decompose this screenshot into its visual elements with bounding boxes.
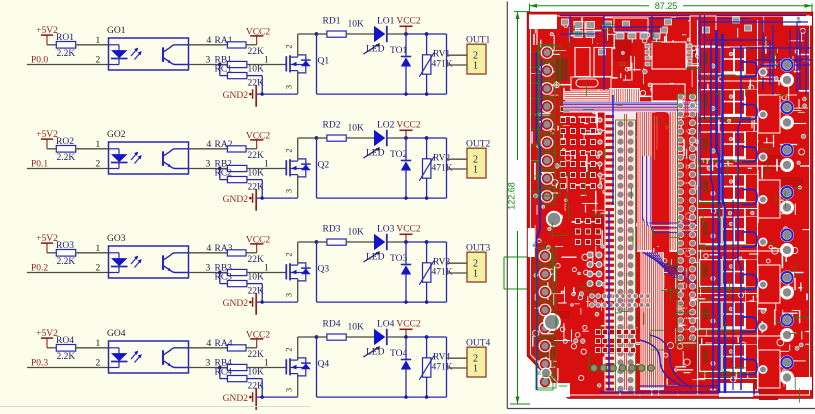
PCB board outline [528, 13, 813, 399]
svg-text:1: 1 [96, 140, 101, 150]
node drain (channel 2) [315, 136, 319, 140]
wire LO4 to VCC2 node [387, 336, 406, 338]
dimension 87.25 (top) [530, 1, 813, 13]
PCB bottom pad rows [590, 294, 655, 372]
PCB blue traces [537, 15, 813, 393]
wire opto pin 4 to RA2 [189, 140, 228, 150]
PCB top-left component blocks [555, 16, 716, 101]
wire P0.2 to opto pin 2 [27, 263, 109, 273]
wire RA3 to VCC2 [246, 252, 257, 254]
PCB driver clusters (right-centre) [699, 47, 758, 374]
svg-text:10K: 10K [348, 124, 365, 134]
svg-text:3: 3 [284, 293, 294, 297]
node RV4 bottom [425, 395, 428, 398]
svg-text:GO1: GO1 [107, 26, 126, 36]
wire drain to RD3 [317, 241, 327, 243]
svg-text:VCC2: VCC2 [396, 17, 421, 27]
node RV2 bottom [425, 196, 428, 199]
svg-text:LO2: LO2 [377, 121, 395, 131]
wire RC1 down to GND2 rail [247, 76, 262, 95]
wire branch down to RC3 [220, 273, 228, 284]
connector OUT2 [466, 140, 491, 179]
wire +5V2 to RO4 [47, 347, 56, 349]
PCB top edge traces [560, 16, 806, 19]
wire RC2 down to GND2 rail [247, 180, 262, 199]
svg-text:RV4: RV4 [433, 353, 450, 363]
svg-text:LO4: LO4 [377, 320, 395, 330]
resistor RD4 10K [323, 320, 365, 341]
LED LO4 [364, 320, 395, 358]
wire P0.3 to opto pin 2 [27, 358, 109, 368]
node VCC2 (channel 1) [404, 32, 408, 36]
TVS diode TO2 [390, 138, 411, 198]
power VCC2 (channel 2 right) [396, 121, 421, 139]
wire Q3 drain riser [298, 242, 317, 265]
node drain (channel 4) [315, 335, 319, 339]
node GND junction (channel 1) [261, 92, 264, 95]
optocoupler GO3 [107, 234, 189, 278]
PCB blue MCU fan-out traces [642, 252, 696, 283]
node GND junction (channel 4) [261, 395, 264, 398]
wire RB4 to gate of Q4 [247, 358, 286, 368]
wire Q2 drain riser [298, 138, 317, 161]
ground GND2 (channel 3) [223, 293, 263, 315]
svg-text:2: 2 [96, 358, 101, 368]
wire Q1 drain riser [298, 34, 317, 57]
resistor RB4 10K [215, 358, 265, 377]
PCB header silkscreen boxes [616, 94, 699, 392]
wire drain to RD4 [317, 336, 327, 338]
node gate-branch (channel 2) [218, 167, 221, 170]
ground GND2 (channel 1) [223, 85, 263, 107]
wire RB2 to gate of Q2 [247, 159, 286, 169]
wire RO3 to opto pin 1 [76, 244, 109, 254]
power VCC2 (channel 4 right) [396, 320, 421, 338]
PCB lower-left resistor-array grid [575, 218, 610, 244]
wire drain to output rail [316, 34, 318, 94]
svg-text:1: 1 [96, 36, 101, 46]
svg-text:TO3: TO3 [390, 254, 407, 264]
PCB left mid pad cluster [587, 252, 602, 287]
wire drain to output rail [316, 138, 318, 198]
svg-text:22K: 22K [248, 47, 265, 57]
wire opto pin 3 to RB3 [189, 263, 228, 273]
resistor RO1 2.2K [56, 33, 76, 59]
wire RO4 to opto pin 1 [76, 339, 109, 349]
wire RA4 to VCC2 [246, 347, 257, 349]
wire output bottom rail (channel 1) [317, 93, 447, 95]
PCB horizontal trace band [563, 102, 716, 113]
svg-text:TO2: TO2 [390, 150, 407, 160]
PCB image left border [506, 2, 508, 409]
dimension bracket (left small) [504, 257, 527, 289]
power +5V2 (channel 1) [36, 26, 58, 45]
PCB mounting holes [541, 211, 563, 379]
svg-text:4: 4 [207, 36, 212, 46]
LED LO3 [364, 225, 395, 263]
svg-text:4: 4 [207, 244, 212, 254]
svg-text:LO3: LO3 [377, 225, 395, 235]
svg-text:1: 1 [473, 165, 478, 176]
PCB via dots [532, 16, 806, 387]
wire P0.1 to opto pin 2 [27, 159, 109, 169]
svg-text:LO1: LO1 [377, 17, 395, 27]
wire RD2 to LED LO2 [346, 137, 374, 139]
PCB pink trace bundles [565, 88, 679, 390]
power VCC2 (channel 2 left) [246, 131, 271, 149]
svg-text:VCC2: VCC2 [396, 121, 421, 131]
wire VCC2 rail to RV2 [406, 137, 427, 139]
svg-text:3: 3 [284, 189, 294, 193]
svg-text:2: 2 [284, 44, 294, 48]
node TO3 bottom [404, 300, 407, 303]
svg-text:10K: 10K [248, 368, 265, 378]
wire RD1 to LED LO1 [346, 33, 374, 35]
svg-text:TO1: TO1 [390, 46, 407, 56]
svg-text:GND2: GND2 [223, 91, 249, 101]
wire GND rail to Q2 source [262, 175, 298, 199]
svg-text:10K: 10K [248, 65, 265, 75]
node RV4 top [425, 335, 429, 339]
svg-text:2: 2 [284, 252, 294, 256]
node RV2 top [425, 136, 429, 140]
wire +5V2 to RO1 [47, 44, 56, 46]
ground GND2 (channel 2) [223, 189, 263, 211]
svg-text:10K: 10K [348, 20, 365, 30]
wire RD4 to LED LO4 [346, 336, 374, 338]
svg-text:4: 4 [207, 339, 212, 349]
power +5V2 (channel 4) [36, 329, 58, 348]
wire drain to RD1 [317, 33, 327, 35]
node RV1 bottom [425, 92, 428, 95]
node RV1 top [425, 32, 429, 36]
svg-text:10K: 10K [348, 323, 365, 333]
PCB routing slots (white) [528, 15, 812, 398]
svg-text:22K: 22K [248, 151, 265, 161]
TVS diode TO3 [390, 242, 411, 302]
PCB edge clearance line [531, 16, 810, 395]
schematic background [0, 0, 507, 414]
wire GND rail to Q4 source [262, 374, 298, 398]
resistor RB3 10K [215, 263, 265, 282]
varistor RV1 471K [419, 34, 452, 94]
svg-text:Q3: Q3 [318, 265, 330, 275]
svg-text:GND2: GND2 [223, 195, 249, 205]
connector OUT4 [466, 339, 491, 378]
wire VCC2 rail to OUT3 [427, 242, 467, 302]
optocoupler GO2 [107, 130, 189, 174]
svg-text:3: 3 [206, 358, 211, 368]
varistor RV4 471K [419, 337, 452, 397]
resistor RA3 22K [215, 244, 265, 265]
wire RB3 to gate of Q3 [247, 263, 286, 273]
wire GND rail to Q3 source [262, 279, 298, 303]
svg-text:2: 2 [96, 159, 101, 169]
node gate-branch (channel 1) [218, 63, 221, 66]
svg-text:Q1: Q1 [318, 57, 330, 67]
node VCC2 (channel 2) [404, 136, 408, 140]
TVS diode TO4 [390, 337, 411, 397]
svg-text:GO2: GO2 [107, 130, 126, 140]
TVS diode TO1 [390, 34, 411, 94]
node RV3 bottom [425, 300, 428, 303]
svg-text:RV2: RV2 [433, 154, 450, 164]
svg-text:3: 3 [206, 263, 211, 273]
wire opto pin 3 to RB1 [189, 55, 228, 65]
optocoupler GO1 [107, 26, 189, 70]
wire VCC2 rail to OUT2 [427, 138, 467, 198]
PCB clearance texture [531, 16, 810, 396]
svg-text:D2: D2 [620, 62, 627, 68]
resistor RA2 22K [215, 140, 265, 161]
svg-text:22K: 22K [248, 350, 265, 360]
wire GND rail to Q1 source [262, 71, 298, 95]
svg-text:2.2K: 2.2K [57, 153, 76, 163]
PCB screenshot panel [507, 0, 815, 414]
svg-text:87.25: 87.25 [655, 1, 678, 11]
svg-text:2: 2 [96, 55, 101, 65]
resistor RB1 10K [215, 55, 265, 74]
svg-text:TO4: TO4 [390, 349, 407, 359]
resistor RO4 2.2K [56, 336, 76, 362]
svg-text:4: 4 [207, 140, 212, 150]
svg-text:Q2: Q2 [318, 161, 330, 171]
node gate-branch (channel 4) [218, 366, 221, 369]
resistor RO3 2.2K [56, 241, 76, 267]
wire RA1 to VCC2 [246, 44, 257, 46]
power VCC2 (channel 4 left) [246, 330, 271, 348]
svg-text:RV3: RV3 [433, 258, 450, 268]
ground GND2 (channel 4) [223, 388, 263, 410]
connector OUT3 [466, 244, 491, 283]
wire RB1 to gate of Q1 [247, 55, 286, 65]
PCB central band red wash [604, 112, 700, 392]
PCB central solid copper bar [652, 112, 671, 246]
resistor RD3 10K [323, 225, 365, 246]
wire +5V2 to RO3 [47, 252, 56, 254]
resistor RC4 22K [215, 368, 265, 392]
power VCC2 (channel 1 right) [396, 17, 421, 35]
svg-text:122.68: 122.68 [507, 182, 517, 210]
wire drain to output rail [316, 337, 318, 397]
svg-text:2: 2 [96, 263, 101, 273]
PCB ruler tick strip [605, 112, 617, 392]
resistor RA4 22K [215, 339, 265, 360]
power +5V2 (channel 3) [36, 234, 58, 253]
wire VCC2 rail to RV3 [406, 241, 427, 243]
svg-text:Q4: Q4 [318, 360, 330, 370]
wire P0.0 to opto pin 2 [27, 55, 109, 65]
PCB right terminal pads [759, 58, 795, 385]
svg-text:RD3: RD3 [323, 225, 341, 235]
svg-text:2.2K: 2.2K [57, 352, 76, 362]
svg-text:1: 1 [264, 263, 269, 273]
wire opto pin 3 to RB2 [189, 159, 228, 169]
resistor RC3 22K [215, 273, 265, 297]
PCB corner trace nest [643, 156, 699, 233]
wire drain to RD2 [317, 137, 327, 139]
PCB right copper zones [758, 95, 780, 388]
wire branch down to RC1 [220, 65, 228, 76]
wire output bottom rail (channel 4) [317, 396, 447, 398]
transistor Q3 (NMOS) [284, 252, 330, 297]
wire opto pin 3 to RB4 [189, 358, 228, 368]
PCB left pad column [537, 45, 555, 391]
svg-text:D1: D1 [605, 27, 612, 33]
wire VCC2 rail to OUT1 [427, 34, 467, 94]
wire branch down to RC2 [220, 169, 228, 180]
node drain (channel 3) [315, 240, 319, 244]
varistor RV3 471K [419, 242, 452, 302]
svg-text:RD1: RD1 [323, 17, 341, 27]
resistor RO2 2.2K [56, 137, 76, 163]
wire RC3 down to GND2 rail [247, 284, 262, 303]
svg-text:10K: 10K [248, 169, 265, 179]
wire +5V2 to RO2 [47, 148, 56, 150]
transistor Q4 (NMOS) [284, 347, 330, 392]
PCB top strip extra pads [562, 17, 752, 55]
node VCC2 (channel 4) [404, 335, 408, 339]
varistor RV2 471K [419, 138, 452, 198]
svg-text:1: 1 [96, 339, 101, 349]
svg-text:1: 1 [473, 269, 478, 280]
wire VCC2 rail to RV1 [406, 33, 427, 35]
node GND junction (channel 3) [261, 300, 264, 303]
resistor RA1 22K [215, 36, 265, 57]
svg-text:3: 3 [206, 159, 211, 169]
PCB left resistor-array pad grid [560, 106, 602, 188]
svg-text:3: 3 [206, 55, 211, 65]
svg-text:10K: 10K [248, 273, 265, 283]
dimension 122.68 (left) [507, 12, 531, 404]
wire VCC2 rail to OUT4 [427, 337, 467, 397]
power VCC2 (channel 3 right) [396, 225, 421, 243]
wire LO2 to VCC2 node [387, 137, 406, 139]
schematic bottom edge line [0, 406, 310, 408]
svg-text:RD4: RD4 [323, 320, 341, 330]
PCB channel gap lines [698, 20, 781, 395]
svg-text:3: 3 [284, 85, 294, 89]
wire opto pin 4 to RA3 [189, 244, 228, 254]
LED LO2 [364, 121, 395, 159]
wire opto pin 4 to RA4 [189, 339, 228, 349]
wire RO1 to opto pin 1 [76, 36, 109, 46]
resistor RD1 10K [323, 17, 365, 38]
wire output bottom rail (channel 3) [317, 301, 447, 303]
wire branch down to RC4 [220, 368, 228, 379]
svg-text:1: 1 [264, 159, 269, 169]
wire RA2 to VCC2 [246, 148, 257, 150]
node drain (channel 1) [315, 32, 319, 36]
LED LO1 [364, 17, 395, 55]
resistor RB2 10K [215, 159, 265, 178]
transistor Q1 (NMOS) [284, 44, 330, 89]
svg-text:GND2: GND2 [223, 299, 249, 309]
svg-text:RD2: RD2 [323, 121, 341, 131]
svg-text:2: 2 [284, 347, 294, 351]
node TO2 bottom [404, 196, 407, 199]
wire RD3 to LED LO3 [346, 241, 374, 243]
svg-text:GO4: GO4 [107, 329, 126, 339]
resistor RC1 22K [215, 65, 265, 89]
PCB image bottom border [507, 408, 815, 410]
node gate-branch (channel 3) [218, 271, 221, 274]
PCB green silkscreen [531, 24, 809, 402]
resistor RD2 10K [323, 121, 365, 142]
svg-text:10K: 10K [348, 228, 365, 238]
wire RC4 down to GND2 rail [247, 379, 262, 398]
power +5V2 (channel 2) [36, 130, 58, 149]
PCB header pad columns [617, 94, 696, 392]
svg-text:1: 1 [96, 244, 101, 254]
node RV3 top [425, 240, 429, 244]
svg-text:GND2: GND2 [223, 394, 249, 404]
svg-text:3: 3 [284, 388, 294, 392]
svg-text:2.2K: 2.2K [57, 49, 76, 59]
PCB copper tone patches [541, 27, 803, 400]
svg-text:1: 1 [473, 364, 478, 375]
optocoupler GO4 [107, 329, 189, 373]
node VCC2 (channel 3) [404, 240, 408, 244]
wire LO1 to VCC2 node [387, 33, 406, 35]
node GND junction (channel 2) [261, 196, 264, 199]
connector OUT1 [466, 36, 491, 75]
wire drain to output rail [316, 242, 318, 302]
svg-text:RV1: RV1 [433, 50, 450, 60]
PCB copper pour (red) [528, 13, 813, 399]
wire RO2 to opto pin 1 [76, 140, 109, 150]
wire output bottom rail (channel 2) [317, 197, 447, 199]
svg-text:VCC2: VCC2 [396, 320, 421, 330]
svg-text:1: 1 [473, 61, 478, 72]
resistor RC2 22K [215, 169, 265, 193]
wire Q4 drain riser [298, 337, 317, 360]
svg-text:1: 1 [264, 55, 269, 65]
svg-text:22K: 22K [248, 255, 265, 265]
svg-text:2: 2 [284, 148, 294, 152]
svg-text:1: 1 [264, 358, 269, 368]
power VCC2 (channel 1 left) [246, 27, 271, 45]
node TO4 bottom [404, 395, 407, 398]
wire opto pin 4 to RA1 [189, 36, 228, 46]
node TO1 bottom [404, 92, 407, 95]
PCB crystal area [571, 77, 611, 90]
wire VCC2 rail to RV4 [406, 336, 427, 338]
transistor Q2 (NMOS) [284, 148, 330, 193]
svg-text:2.2K: 2.2K [57, 257, 76, 267]
power VCC2 (channel 3 left) [246, 235, 271, 253]
wire LO3 to VCC2 node [387, 241, 406, 243]
svg-text:VCC2: VCC2 [396, 225, 421, 235]
PCB silkscreen designators [605, 27, 707, 252]
svg-text:GO3: GO3 [107, 234, 126, 244]
